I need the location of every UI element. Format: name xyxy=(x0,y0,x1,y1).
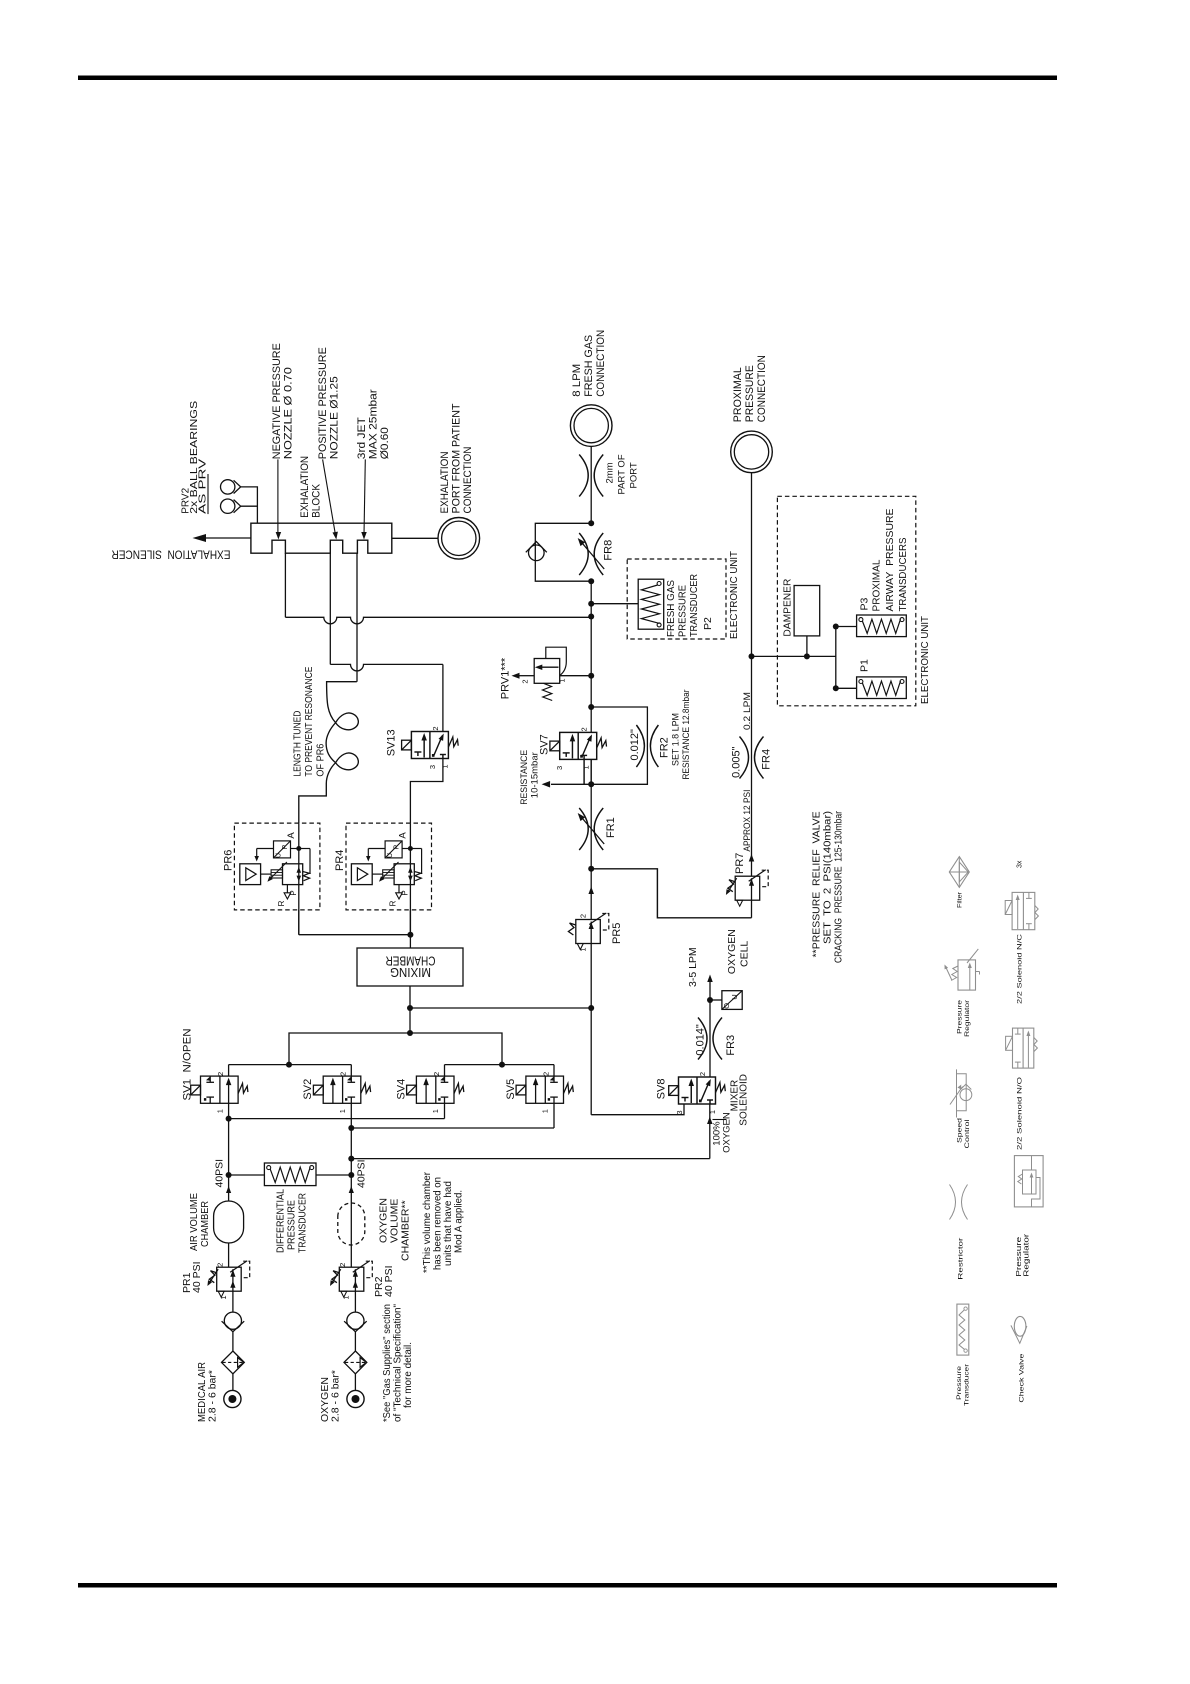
PR6 U/P converter xyxy=(274,841,291,858)
3-5 LPM vent arrow xyxy=(709,980,711,1000)
legend 2/2 solenoid NC xyxy=(1012,892,1035,929)
svg-text:Restrictor: Restrictor xyxy=(958,1238,965,1280)
PR6 amplifier xyxy=(240,864,261,885)
exhalation silencer arrow xyxy=(206,537,251,539)
legend speed control xyxy=(956,1069,958,1117)
valve SV13 xyxy=(411,732,448,759)
pressure transducer P1 xyxy=(857,677,907,699)
svg-text:1: 1 xyxy=(578,947,587,951)
node chamber-main xyxy=(407,1005,413,1011)
regulator PR2 xyxy=(339,1267,364,1291)
svg-text:BLOCK: BLOCK xyxy=(311,483,323,518)
legend pressure regulator simple xyxy=(958,960,976,990)
regulator PR7 xyxy=(735,876,760,900)
svg-text:SV13: SV13 xyxy=(386,729,398,756)
svg-text:LENGTH TUNED: LENGTH TUNED xyxy=(292,710,304,776)
svg-text:2: 2 xyxy=(432,1072,441,1076)
PR4 wires xyxy=(402,848,410,850)
page top rule xyxy=(78,76,1057,81)
wire to source air xyxy=(232,1374,234,1391)
svg-text:FR2: FR2 xyxy=(659,737,671,758)
PR6 adjust arrow xyxy=(269,862,287,880)
svg-text:CHAMBER: CHAMBER xyxy=(199,1201,211,1247)
medical air source connection xyxy=(224,1390,241,1407)
dashed box electronic unit P2 xyxy=(627,559,726,639)
svg-text:*See "Gas Supplies" section: *See "Gas Supplies" section xyxy=(382,1304,393,1422)
svg-text:U: U xyxy=(730,994,739,999)
svg-text:R: R xyxy=(277,900,286,906)
node P2 branch xyxy=(588,601,594,607)
svg-text:1: 1 xyxy=(215,1109,224,1113)
svg-text:SOLENOID: SOLENOID xyxy=(739,1074,750,1126)
legend restrictor xyxy=(950,1185,956,1220)
PR4 regulator box xyxy=(394,864,414,885)
svg-text:CONNECTION: CONNECTION xyxy=(462,446,474,513)
svg-text:0.005": 0.005" xyxy=(731,746,743,778)
legend filter xyxy=(949,857,969,888)
svg-text:1: 1 xyxy=(541,1109,550,1113)
svg-text:SV7: SV7 xyxy=(539,734,551,755)
svg-text:1: 1 xyxy=(219,1295,228,1299)
svg-text:3rd JET: 3rd JET xyxy=(356,417,368,459)
PR4 U/P converter xyxy=(385,841,402,858)
svg-text:OXYGEN: OXYGEN xyxy=(726,929,738,974)
svg-text:PART OF: PART OF xyxy=(616,454,627,494)
svg-text:CELL: CELL xyxy=(739,941,751,967)
PRV2 ball bearing 2 xyxy=(221,499,235,513)
svg-text:2: 2 xyxy=(216,1072,225,1076)
svg-text:P3: P3 xyxy=(859,597,871,610)
differential pressure transducer xyxy=(264,1163,316,1186)
oxygen source connection xyxy=(347,1390,364,1407)
wire to source oxygen xyxy=(354,1374,356,1391)
svg-text:A: A xyxy=(286,832,297,839)
legend check valve xyxy=(1014,1316,1026,1336)
PR4 spring xyxy=(414,872,421,881)
svg-text:1: 1 xyxy=(708,1110,717,1114)
restrictor FR2 0.012in xyxy=(636,725,644,767)
svg-text:NOZZLE Ø1.25: NOZZLE Ø1.25 xyxy=(329,376,341,459)
flow arrow into PR7 xyxy=(749,854,755,862)
node P1 xyxy=(833,685,839,691)
svg-text:RESISTANCE 12.8mbar: RESISTANCE 12.8mbar xyxy=(681,690,692,780)
svg-text:2: 2 xyxy=(541,1072,550,1076)
air chamber flow arrow xyxy=(226,1186,231,1193)
node mixing chamber top xyxy=(407,932,413,938)
pressure transducer P2 xyxy=(638,579,664,629)
svg-text:TRANSDUCER: TRANSDUCER xyxy=(688,574,700,637)
flow arrow into PR5 xyxy=(590,869,592,920)
svg-text:FR1: FR1 xyxy=(605,817,617,838)
svg-text:Filter: Filter xyxy=(957,892,964,908)
8 LPM fresh gas connection circle xyxy=(570,405,612,447)
svg-text:10-15mbar: 10-15mbar xyxy=(529,752,540,798)
svg-text:8 LPM: 8 LPM xyxy=(571,364,583,397)
svg-text:Pressure: Pressure xyxy=(957,999,964,1034)
nozzle pointer positive pressure xyxy=(323,459,336,534)
PR4 adjust arrow xyxy=(381,862,399,880)
svg-text:**This volume chamber: **This volume chamber xyxy=(422,1171,433,1273)
svg-text:40 PSI: 40 PSI xyxy=(191,1261,203,1293)
wire branch to PR7 xyxy=(591,869,751,918)
svg-text:3: 3 xyxy=(675,1110,684,1114)
proximal line xyxy=(751,473,753,877)
svg-text:2: 2 xyxy=(698,1072,707,1076)
filter oxygen xyxy=(344,1351,367,1374)
transducer bus wires xyxy=(752,655,836,657)
svg-text:U: U xyxy=(387,853,394,858)
svg-text:EXHALATION: EXHALATION xyxy=(439,451,451,513)
check valve CV bypass xyxy=(529,545,545,561)
svg-text:P: P xyxy=(393,845,400,850)
nozzle pointer negative pressure xyxy=(277,459,279,534)
svg-text:SV4: SV4 xyxy=(395,1079,407,1100)
wire SV4 pin2 xyxy=(444,1065,446,1077)
svg-text:EXHALATION SILENCER: EXHALATION SILENCER xyxy=(112,547,231,559)
valve SV4 xyxy=(416,1076,454,1103)
regulator PR5 xyxy=(576,920,601,944)
wire main to SV7 xyxy=(590,676,592,733)
valve SV2 xyxy=(323,1076,361,1103)
wire PR4 A to junction xyxy=(409,910,411,935)
svg-text:P1: P1 xyxy=(859,659,871,672)
svg-text:2: 2 xyxy=(338,1263,347,1267)
svg-text:NOZZLE Ø 0.70: NOZZLE Ø 0.70 xyxy=(283,367,295,459)
valve SV5 xyxy=(526,1076,564,1103)
wire main to SV8 pin3 xyxy=(591,1104,684,1115)
svg-text:ELECTRONIC UNIT: ELECTRONIC UNIT xyxy=(919,615,931,704)
node below FR8 xyxy=(588,578,594,584)
svg-text:Check Valve: Check Valve xyxy=(1019,1353,1026,1403)
dashed box electronic unit proximal xyxy=(777,496,915,706)
check valve bypass around FR8 xyxy=(535,523,591,581)
node above FR8 xyxy=(588,520,594,526)
svg-text:DAMPENER: DAMPENER xyxy=(782,578,794,636)
svg-text:AIRWAY PRESSURE: AIRWAY PRESSURE xyxy=(884,509,896,612)
node PRV1 xyxy=(588,673,594,679)
svg-text:0.2 LPM: 0.2 LPM xyxy=(742,692,753,730)
svg-text:SV8: SV8 xyxy=(656,1079,668,1100)
wire SV1 pin2 xyxy=(228,1065,230,1077)
wire SV8 pin2 to FR3 xyxy=(709,1000,711,1077)
node FR2 top xyxy=(588,704,594,710)
wire to P2 transducer xyxy=(591,603,638,605)
regulator PR1 xyxy=(217,1267,242,1291)
node nozzle line xyxy=(588,614,594,620)
oxygen cell xyxy=(710,999,722,1001)
proximal pressure connection circle xyxy=(731,431,773,473)
restrictor FR1 variable xyxy=(579,808,588,850)
svg-text:2: 2 xyxy=(339,1072,348,1076)
svg-text:P: P xyxy=(289,890,298,895)
svg-text:TRANSDUCERS: TRANSDUCERS xyxy=(897,538,909,612)
svg-text:Pressure: Pressure xyxy=(1016,1237,1023,1277)
wire nozzle2 to SV13 xyxy=(329,553,331,664)
node ox 40psi xyxy=(348,1172,354,1178)
node SV bus xyxy=(407,1030,413,1036)
check valve oxygen xyxy=(347,1312,364,1329)
svg-text:1: 1 xyxy=(342,1295,351,1299)
wire SV5 pin2 xyxy=(553,1065,555,1077)
wire chamber to PR1 xyxy=(228,1243,230,1267)
air bus SV1-SV4 xyxy=(228,1103,230,1175)
svg-text:OXYGEN: OXYGEN xyxy=(722,1112,733,1153)
wire chamber to main xyxy=(410,1007,591,1009)
exhalation block xyxy=(251,523,392,553)
PR6 A line xyxy=(298,823,300,935)
tuned length coil xyxy=(299,682,359,823)
node oxygen cell xyxy=(707,997,713,1003)
svg-text:SV2: SV2 xyxy=(302,1079,314,1100)
svg-text:MAX 25mbar: MAX 25mbar xyxy=(367,389,379,459)
valve PRV1 relief xyxy=(534,659,560,684)
svg-text:FRESH GAS: FRESH GAS xyxy=(665,580,677,637)
svg-text:CRACKING PRESSURE 125-130mba: CRACKING PRESSURE 125-130mbar xyxy=(833,811,845,963)
air volume chamber xyxy=(228,1175,230,1201)
vent resistance arrow xyxy=(551,783,591,785)
restrictor FR4 0.005in xyxy=(740,737,749,779)
wire FR8 to P2 node xyxy=(590,581,592,604)
PR6 regulator box xyxy=(283,864,303,885)
node proximal bus xyxy=(749,653,755,659)
svg-text:PR7: PR7 xyxy=(734,853,746,874)
wire PR6 A to junction xyxy=(298,910,300,935)
wire nozzle3 to coil xyxy=(356,553,358,682)
wire PR7 bottom xyxy=(751,900,753,918)
svg-text:APPROX 12 PSI: APPROX 12 PSI xyxy=(742,790,753,852)
svg-text:R: R xyxy=(389,900,398,906)
wire PR5 to mix node xyxy=(590,944,592,1115)
svg-text:NEGATIVE PRESSURE: NEGATIVE PRESSURE xyxy=(271,343,283,459)
node FR2 bottom xyxy=(588,781,594,787)
svg-text:ELECTRONIC UNIT: ELECTRONIC UNIT xyxy=(728,550,740,639)
svg-text:PR5: PR5 xyxy=(611,923,623,944)
svg-text:for more detail.: for more detail. xyxy=(403,1342,414,1408)
svg-text:2.8 - 6 bar*: 2.8 - 6 bar* xyxy=(207,1370,219,1422)
svg-text:3: 3 xyxy=(428,765,437,769)
svg-text:P2: P2 xyxy=(702,617,714,630)
restrictor FR3 0.014in xyxy=(698,1018,707,1060)
node PR7 branch xyxy=(588,866,594,872)
spring PRV1 xyxy=(543,683,553,700)
svg-text:EXHALATION: EXHALATION xyxy=(299,456,311,518)
svg-text:2mm: 2mm xyxy=(604,462,615,483)
restrictor FR8 variable xyxy=(579,533,588,575)
wire block to exhalation port xyxy=(392,537,438,539)
wire to filter oxygen xyxy=(354,1332,356,1351)
svg-text:FR8: FR8 xyxy=(603,540,615,561)
svg-text:3-5 LPM: 3-5 LPM xyxy=(687,947,699,987)
svg-text:PRV1***: PRV1*** xyxy=(500,657,512,699)
dampener xyxy=(794,586,820,636)
svg-text:2: 2 xyxy=(215,1263,224,1267)
svg-text:2: 2 xyxy=(521,679,530,683)
wire PR2 to check valve xyxy=(354,1291,356,1312)
SV supply bus xyxy=(289,1033,502,1065)
PR6 pilot hatch xyxy=(271,870,282,878)
wire to FR1 xyxy=(590,784,592,869)
filter air xyxy=(222,1351,245,1374)
wire chamber to bus xyxy=(409,986,411,1033)
svg-text:TO PREVENT RESONANCE: TO PREVENT RESONANCE xyxy=(303,667,315,777)
svg-text:U: U xyxy=(276,853,283,858)
svg-text:POSITIVE PRESSURE: POSITIVE PRESSURE xyxy=(317,347,329,459)
svg-text:OF PR6: OF PR6 xyxy=(315,743,327,776)
svg-text:has been removed on: has been removed on xyxy=(432,1177,443,1270)
PR6 P port xyxy=(286,885,288,893)
svg-text:1: 1 xyxy=(582,765,591,769)
PRV2 ball bearing 1 xyxy=(221,480,235,494)
exhalation port circle xyxy=(438,518,480,560)
svg-text:Speed: Speed xyxy=(957,1117,964,1143)
svg-text:units that have had: units that have had xyxy=(443,1181,454,1266)
svg-text:Ø0.60: Ø0.60 xyxy=(379,427,391,459)
regulator PR4 dashed box xyxy=(346,823,432,910)
page bottom rule xyxy=(78,1583,1057,1588)
svg-text:MIXING: MIXING xyxy=(390,965,431,979)
FR2 branch loop xyxy=(591,707,647,784)
restrictor 2mm xyxy=(579,455,588,497)
svg-text:PRESSURE: PRESSURE xyxy=(744,365,756,422)
PR4 node A xyxy=(408,846,413,851)
svg-text:FR4: FR4 xyxy=(761,749,773,770)
svg-text:1: 1 xyxy=(338,1109,347,1113)
svg-text:2/2 Solenoid N/C: 2/2 Solenoid N/C xyxy=(1017,933,1024,1004)
svg-text:Control: Control xyxy=(964,1120,971,1149)
svg-text:1: 1 xyxy=(431,1109,440,1113)
svg-text:FRESH GAS: FRESH GAS xyxy=(583,335,595,397)
nozzle pointer 3rd jet xyxy=(364,459,365,534)
svg-text:A: A xyxy=(398,832,409,839)
svg-text:O: O xyxy=(722,1003,731,1009)
wire to filter air xyxy=(232,1332,234,1351)
oxygen bus SV2-SV5 xyxy=(350,1103,352,1175)
wire nozzle line to exhalation block xyxy=(285,617,591,624)
svg-text:AS PRV: AS PRV xyxy=(198,458,209,513)
node dampener xyxy=(804,653,810,659)
PR6 node A xyxy=(296,846,301,851)
svg-text:CONNECTION: CONNECTION xyxy=(756,355,768,422)
oxygen volume chamber (removed) xyxy=(350,1175,352,1267)
svg-text:2: 2 xyxy=(431,726,440,730)
legend 2/2 solenoid NO xyxy=(1013,1028,1034,1068)
svg-text:PR4: PR4 xyxy=(334,850,346,871)
svg-text:Regulator: Regulator xyxy=(1024,1233,1031,1277)
svg-text:Pressure: Pressure xyxy=(956,1365,963,1400)
wire SV13 pin1 to PR4 A xyxy=(410,759,443,824)
svg-text:SV1 N/OPEN: SV1 N/OPEN xyxy=(181,1028,193,1100)
svg-text:PR6: PR6 xyxy=(222,850,234,871)
wire SV2 pin2 xyxy=(350,1065,352,1077)
svg-text:P: P xyxy=(282,845,289,850)
svg-text:3x: 3x xyxy=(1017,860,1024,868)
svg-text:3: 3 xyxy=(555,766,564,770)
svg-text:2.8 - 6 bar*: 2.8 - 6 bar* xyxy=(330,1370,342,1422)
svg-text:of "Technical Specification": of "Technical Specification" xyxy=(392,1304,403,1422)
svg-text:PORT: PORT xyxy=(628,462,639,488)
svg-text:2/2 Solenoid N/O: 2/2 Solenoid N/O xyxy=(1017,1077,1024,1150)
svg-text:1: 1 xyxy=(441,764,450,768)
svg-text:FR3: FR3 xyxy=(725,1035,737,1056)
wire dampener to bus xyxy=(806,636,808,657)
svg-text:2: 2 xyxy=(578,914,587,918)
svg-text:SV5: SV5 xyxy=(505,1079,517,1100)
check valve air xyxy=(224,1312,241,1329)
svg-text:PORT FROM PATIENT: PORT FROM PATIENT xyxy=(450,403,462,513)
PR6 spring xyxy=(303,872,310,881)
svg-text:40PSI: 40PSI xyxy=(214,1159,226,1188)
valve SV7 xyxy=(560,732,597,759)
mixing chamber xyxy=(409,935,411,948)
wire 8LPM to restrictor xyxy=(590,446,592,523)
100% oxygen line to SV8 xyxy=(348,1156,354,1162)
node P3 xyxy=(833,624,839,630)
PR4 P port xyxy=(398,885,400,893)
svg-text:Mod A applied.: Mod A applied. xyxy=(453,1190,464,1253)
node air 40psi xyxy=(226,1172,232,1178)
svg-text:PROXIMAL: PROXIMAL xyxy=(732,367,744,422)
wire PRV2 to block xyxy=(241,487,258,523)
valve SV8 xyxy=(679,1077,716,1104)
svg-text:40 PSI: 40 PSI xyxy=(383,1265,395,1297)
svg-text:0.012": 0.012" xyxy=(629,729,641,761)
pressure transducer P3 xyxy=(857,615,907,637)
legend pressure regulator boxed xyxy=(1014,1156,1043,1207)
PR4 amplifier xyxy=(351,864,372,885)
svg-text:Regulator: Regulator xyxy=(964,1000,971,1037)
svg-text:TRANSDUCER: TRANSDUCER xyxy=(296,1193,308,1253)
svg-text:PRESSURE: PRESSURE xyxy=(676,585,688,637)
regulator PR6 dashed box xyxy=(234,823,320,910)
PR4 A line xyxy=(409,823,411,935)
valve SV1 xyxy=(201,1076,239,1103)
node main-mix xyxy=(588,1005,594,1011)
svg-text:CONNECTION: CONNECTION xyxy=(595,330,607,397)
svg-text:PROXIMAL: PROXIMAL xyxy=(870,559,882,611)
svg-text:P: P xyxy=(401,890,410,895)
svg-text:CHAMBER**: CHAMBER** xyxy=(400,1200,412,1261)
wire SV7 pin1 to vent xyxy=(583,759,585,784)
wire PR1 to check valve xyxy=(232,1291,234,1312)
PR6 wires xyxy=(291,848,299,850)
svg-text:0.014": 0.014" xyxy=(695,1024,707,1056)
svg-text:2: 2 xyxy=(579,727,588,731)
svg-text:Transducer: Transducer xyxy=(964,1364,971,1406)
legend pressure transducer xyxy=(957,1304,969,1355)
svg-text:1: 1 xyxy=(558,678,567,682)
svg-text:40PSI: 40PSI xyxy=(355,1159,367,1188)
PR4 pilot hatch xyxy=(383,870,394,878)
